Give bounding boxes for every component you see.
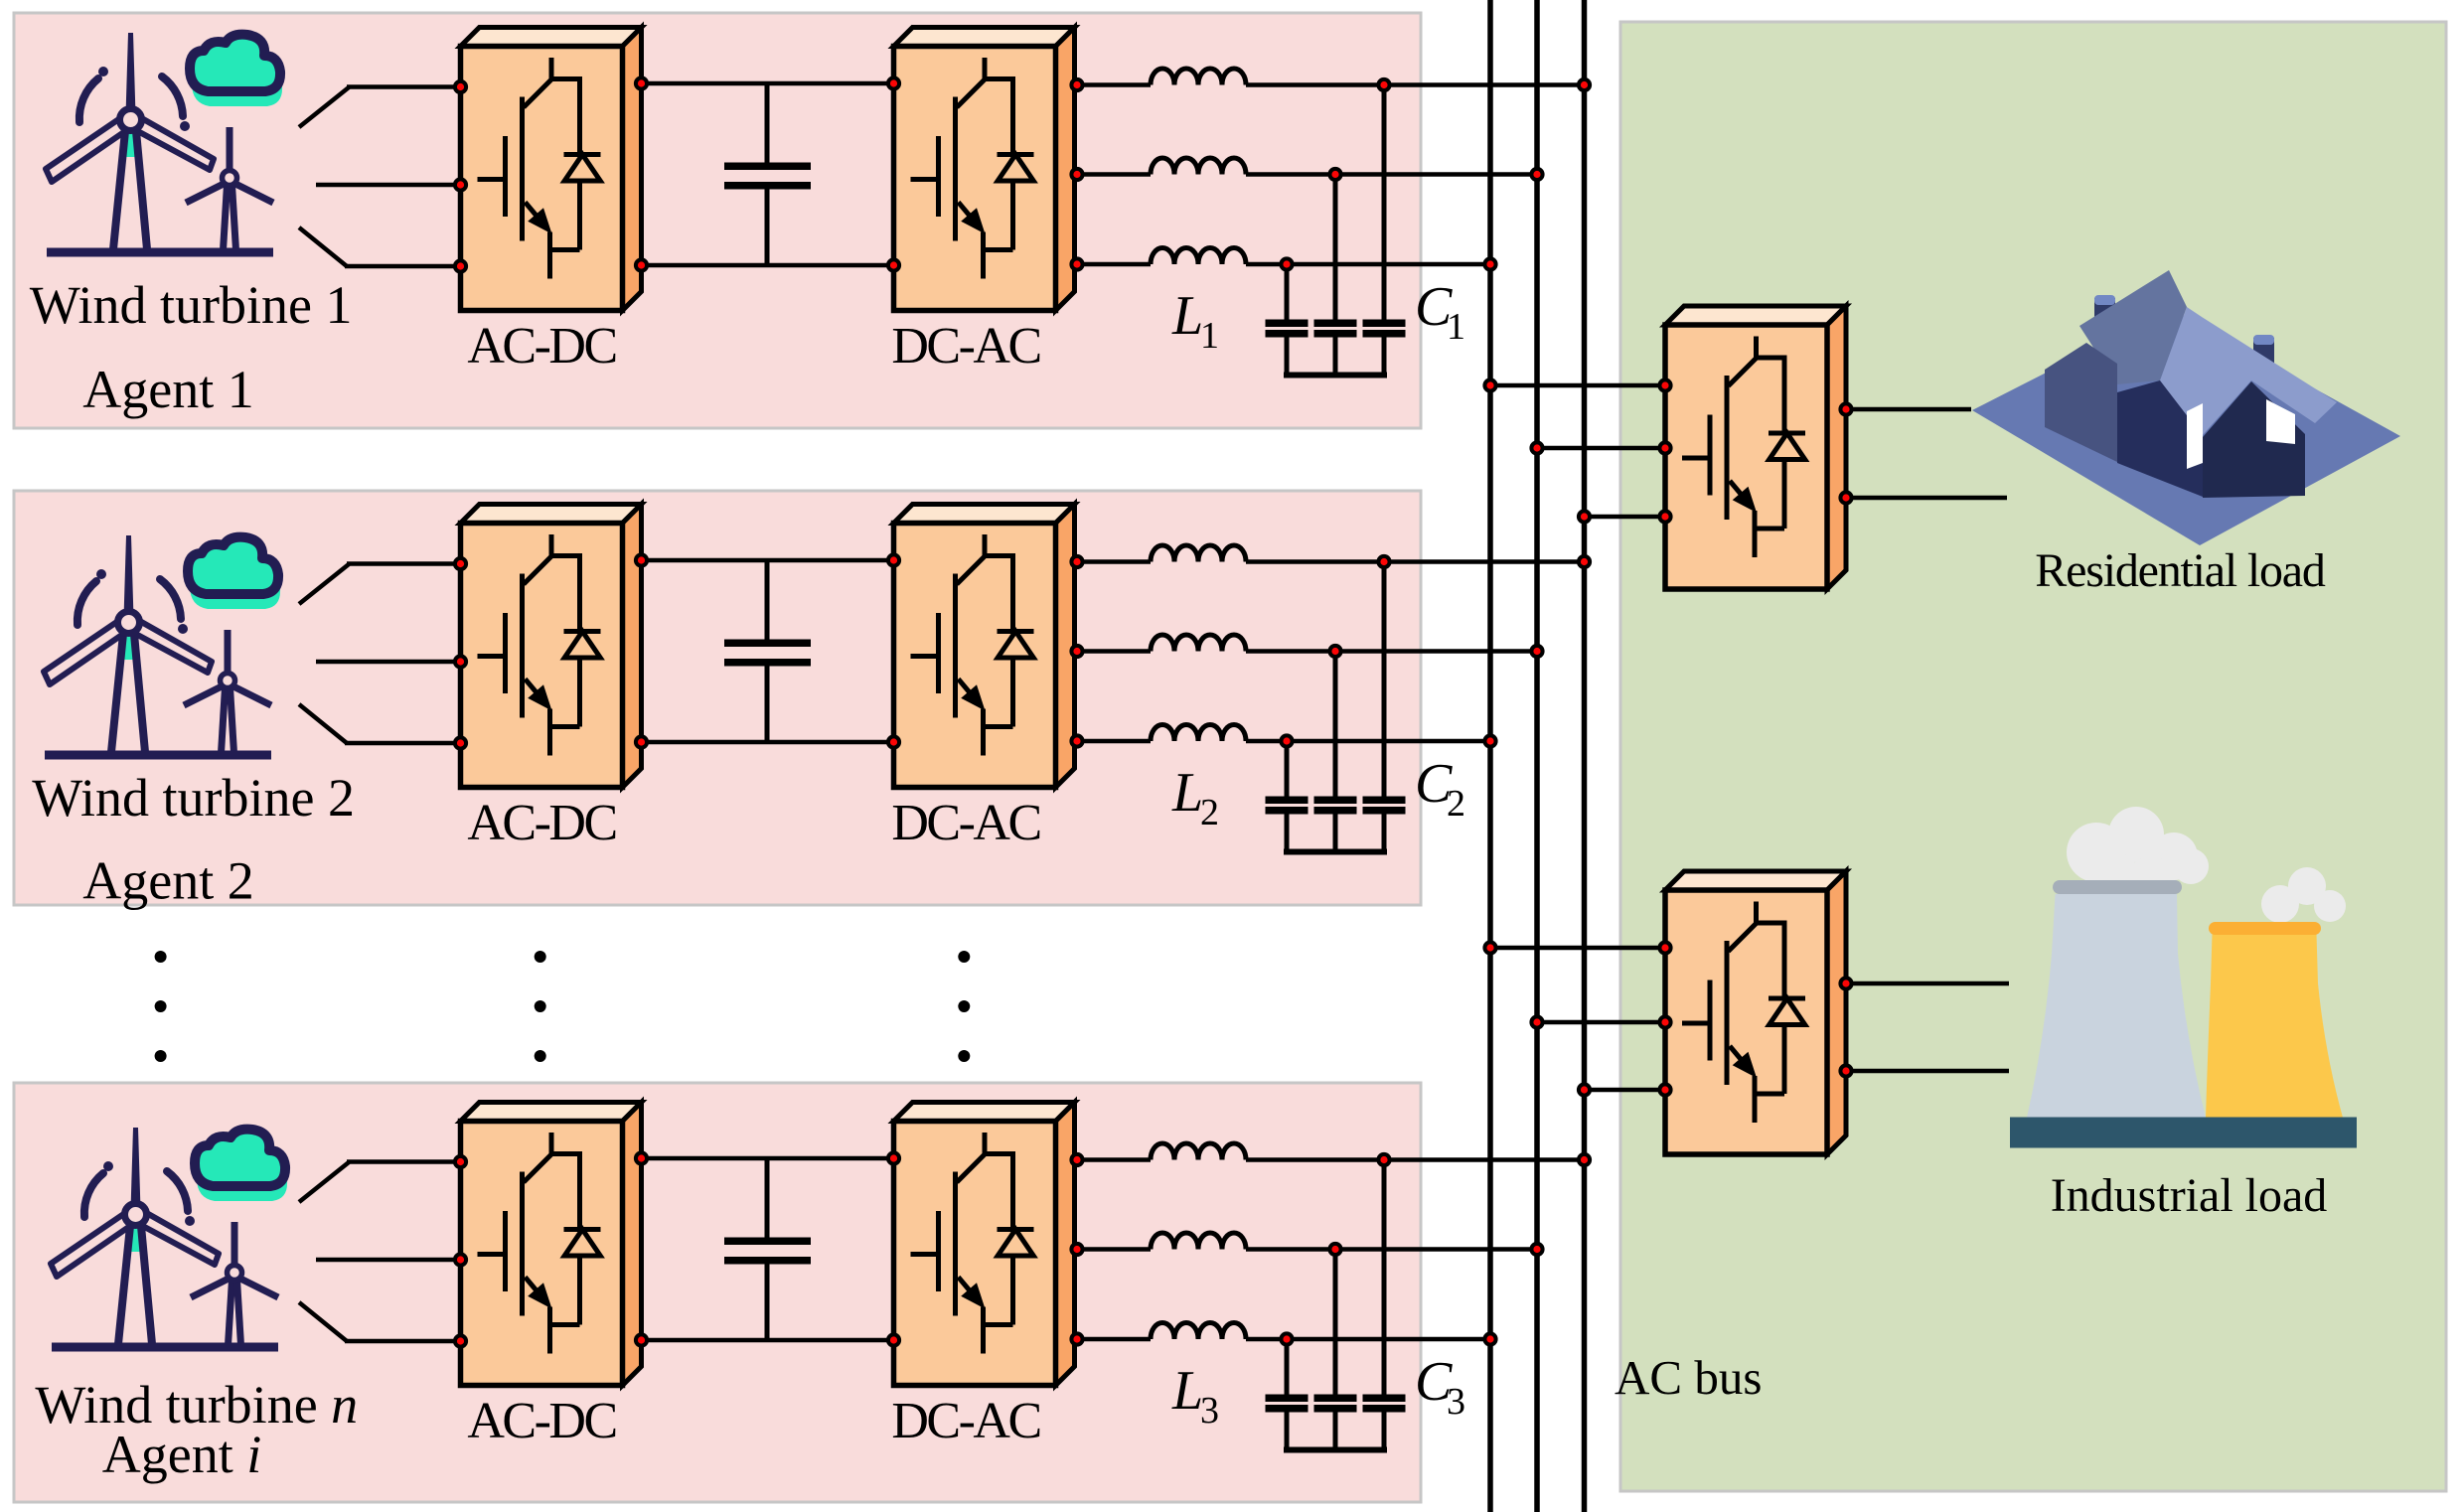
- wire phase b out agent 2: [1077, 649, 1151, 654]
- svg-text:2: 2: [1200, 792, 1219, 833]
- industrial load factory icon: [2067, 823, 2126, 882]
- wire cap branch c agent 1: [1285, 264, 1290, 320]
- wire bus to industrial c: [1585, 1088, 1666, 1093]
- svg-text:AC-DC: AC-DC: [467, 1393, 615, 1449]
- wire input phase c agent 3: [299, 1302, 347, 1341]
- svg-text:AC bus: AC bus: [1615, 1350, 1762, 1405]
- wire phase a out agent 2: [1077, 559, 1151, 564]
- capacitor bank C2: [1266, 797, 1308, 805]
- agent 2 enclosure box: [14, 491, 1421, 905]
- svg-text:AC-DC: AC-DC: [467, 795, 615, 851]
- wire cap branch b agent 2: [1333, 652, 1338, 798]
- wire phase b out agent 1: [1077, 172, 1151, 177]
- residential load house icon: [1972, 309, 2400, 545]
- DC-AC converter agent 1: [894, 28, 1075, 311]
- wire phase a out agent 3: [1077, 1157, 1151, 1162]
- svg-text:DC-AC: DC-AC: [891, 795, 1039, 851]
- wire cap branch b agent 3: [1333, 1250, 1338, 1396]
- svg-text:Agent i: Agent i: [102, 1425, 261, 1484]
- svg-text:L: L: [1171, 762, 1203, 824]
- wire bus to industrial b: [1537, 1020, 1665, 1025]
- AC bus line 1: [1487, 0, 1493, 1512]
- DC-link capacitor agent 3: [765, 1158, 770, 1238]
- wire bus to residential b: [1537, 446, 1665, 451]
- svg-text:L: L: [1171, 285, 1203, 347]
- inductor L2 phase a: [1151, 545, 1246, 562]
- svg-text:DC-AC: DC-AC: [891, 318, 1039, 375]
- svg-text:Agent 1: Agent 1: [82, 360, 253, 419]
- svg-text:1: 1: [1200, 315, 1219, 357]
- svg-text:1: 1: [1447, 306, 1465, 348]
- wire DC+ agent 3: [642, 1156, 894, 1161]
- AC bus line 3: [1582, 0, 1588, 1512]
- inductor L1 phase b: [1151, 158, 1246, 175]
- wire DC- agent 1: [642, 263, 894, 268]
- wire bus to residential a: [1490, 383, 1665, 388]
- AC-DC converter agent 2: [461, 505, 642, 788]
- wire phase a to bus agent 1: [1246, 82, 1585, 87]
- svg-text:L: L: [1171, 1360, 1203, 1422]
- wire phase b to bus agent 2: [1246, 649, 1537, 654]
- residential junction dots: [1482, 378, 1497, 392]
- svg-text:AC-DC: AC-DC: [467, 318, 615, 375]
- svg-text:3: 3: [1200, 1390, 1219, 1432]
- wire bus to residential c: [1585, 515, 1666, 520]
- junction dots agent 3: [453, 1154, 468, 1169]
- wire residential out 2: [1846, 496, 2007, 501]
- wire input phase b agent 2: [316, 660, 461, 665]
- loads zone box: [1620, 22, 2446, 1491]
- wire phase c out agent 2: [1077, 739, 1151, 744]
- wind turbine icon agent 1: [46, 33, 282, 252]
- svg-text:Agent 2: Agent 2: [82, 851, 253, 911]
- residential converter: [1665, 306, 1846, 589]
- capacitor bank C3: [1266, 1395, 1308, 1403]
- wire industrial out 1: [1846, 982, 2009, 986]
- junction dots agent 1: [453, 79, 468, 94]
- wire industrial out 2: [1846, 1069, 2009, 1074]
- wire cap branch a agent 1: [1382, 85, 1387, 321]
- wire phase c to bus agent 1: [1246, 262, 1490, 267]
- wire phase a out agent 1: [1077, 82, 1151, 87]
- svg-text:Wind turbine 1: Wind turbine 1: [30, 275, 353, 335]
- junction dots agent 2: [453, 556, 468, 571]
- wind turbine icon agent 2: [44, 535, 280, 755]
- wire phase b to bus agent 1: [1246, 172, 1537, 177]
- wire DC+ agent 2: [642, 558, 894, 563]
- wire residential out 1: [1846, 407, 1971, 412]
- wire cap branch c agent 2: [1285, 741, 1290, 797]
- svg-text:3: 3: [1447, 1381, 1465, 1423]
- wire phase a to bus agent 3: [1246, 1157, 1585, 1162]
- wire cap branch a agent 3: [1382, 1160, 1387, 1396]
- inductor L3 phase c: [1151, 1323, 1246, 1340]
- industrial converter: [1665, 871, 1846, 1154]
- inductor L3 phase b: [1151, 1233, 1246, 1250]
- DC-link capacitor agent 2: [765, 560, 770, 640]
- wire phase a to bus agent 2: [1246, 559, 1585, 564]
- inductor L1 phase c: [1151, 248, 1246, 265]
- wire bus to industrial a: [1490, 946, 1665, 951]
- wire phase c to bus agent 3: [1246, 1337, 1490, 1342]
- wire phase c to bus agent 2: [1246, 739, 1490, 744]
- wire input phase c agent 2: [299, 704, 347, 743]
- capacitor bank C1: [1266, 320, 1308, 328]
- wire DC+ agent 1: [642, 81, 894, 86]
- industrial junction dots: [1482, 940, 1497, 955]
- wire input phase a agent 1: [299, 87, 349, 127]
- wire DC- agent 2: [642, 740, 894, 745]
- svg-text:2: 2: [1447, 783, 1465, 825]
- inductor L3 phase a: [1151, 1143, 1246, 1160]
- inductor L1 phase a: [1151, 69, 1246, 85]
- wire cap branch c agent 3: [1285, 1339, 1290, 1395]
- DC-AC converter agent 2: [894, 505, 1075, 788]
- DC-link capacitor agent 1: [765, 83, 770, 163]
- wire input phase a agent 2: [299, 564, 349, 604]
- wire phase b out agent 3: [1077, 1247, 1151, 1252]
- wire phase c out agent 3: [1077, 1337, 1151, 1342]
- wire phase b to bus agent 3: [1246, 1247, 1537, 1252]
- agent 3 enclosure box: [14, 1083, 1421, 1502]
- AC-DC converter agent 1: [461, 28, 642, 311]
- wire input phase b agent 3: [316, 1258, 461, 1263]
- svg-text:Residential load: Residential load: [2035, 544, 2326, 597]
- DC-AC converter agent 3: [894, 1103, 1075, 1386]
- inductor L2 phase b: [1151, 635, 1246, 652]
- wire input phase b agent 1: [316, 183, 461, 188]
- agent 1 enclosure box: [14, 13, 1421, 428]
- wire input phase c agent 1: [299, 227, 347, 266]
- inductor L2 phase c: [1151, 725, 1246, 742]
- svg-text:DC-AC: DC-AC: [891, 1393, 1039, 1449]
- svg-text:Industrial load: Industrial load: [2051, 1169, 2328, 1222]
- wire DC- agent 3: [642, 1338, 894, 1343]
- wire phase c out agent 1: [1077, 262, 1151, 267]
- wire input phase a agent 3: [299, 1162, 349, 1202]
- wire cap branch a agent 2: [1382, 562, 1387, 798]
- continuation dots: [155, 951, 167, 963]
- svg-text:Wind turbine 2: Wind turbine 2: [32, 768, 355, 828]
- wind turbine icon agent 3: [51, 1128, 287, 1347]
- AC-DC converter agent 3: [461, 1103, 642, 1386]
- AC bus line 2: [1534, 0, 1540, 1512]
- wire cap branch b agent 1: [1333, 175, 1338, 321]
